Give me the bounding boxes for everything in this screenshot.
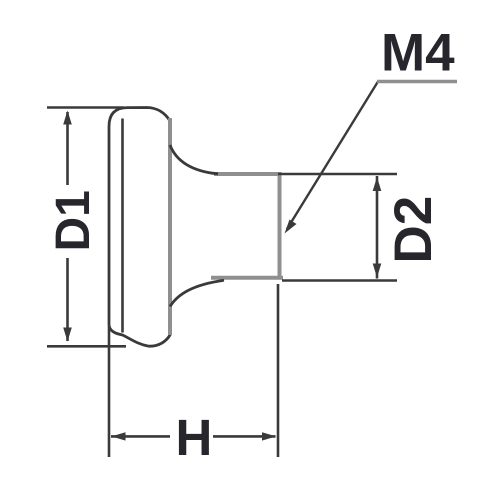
D2 upper arrowhead bbox=[373, 177, 382, 191]
svg-text:D1: D1 bbox=[47, 190, 100, 251]
D2 dimension line bbox=[376, 176, 379, 279]
svg-text:M4: M4 bbox=[381, 24, 455, 83]
H dimension line left segment bbox=[111, 435, 170, 438]
neck upper curve bbox=[170, 145, 218, 174]
H dimension line right segment bbox=[213, 435, 276, 438]
D2 lower arrowhead bbox=[373, 264, 382, 278]
D2 top extension line bbox=[278, 173, 397, 176]
D1 dimension line upper segment bbox=[66, 112, 69, 185]
knob cap face edge line bbox=[121, 119, 124, 333]
knob cap right face (gray) bbox=[168, 118, 172, 335]
svg-text:H: H bbox=[176, 409, 213, 466]
D1 top extension line bbox=[47, 106, 124, 109]
D1 dimension line lower segment bbox=[66, 258, 69, 341]
stem top face (gray) bbox=[214, 172, 281, 176]
H right arrowhead bbox=[262, 432, 276, 440]
H right extension line bbox=[277, 284, 280, 457]
D1 lower arrowhead bbox=[63, 328, 72, 342]
neck lower curve bbox=[170, 280, 224, 306]
D1 upper arrowhead bbox=[63, 111, 72, 125]
stem bottom face (gray) bbox=[211, 276, 283, 280]
M4 leader line bbox=[287, 82, 378, 230]
D1 bottom extension line bbox=[47, 345, 126, 348]
stem right face (gray) bbox=[278, 172, 282, 279]
M4 leader arrowhead bbox=[285, 220, 297, 234]
D2 bottom extension line bbox=[282, 279, 397, 282]
H left extension line bbox=[108, 326, 111, 457]
H left arrowhead bbox=[112, 432, 126, 440]
svg-text:D2: D2 bbox=[384, 196, 443, 264]
M4 leader underline (gray) bbox=[377, 80, 457, 84]
knob cap outline bbox=[109, 108, 170, 347]
